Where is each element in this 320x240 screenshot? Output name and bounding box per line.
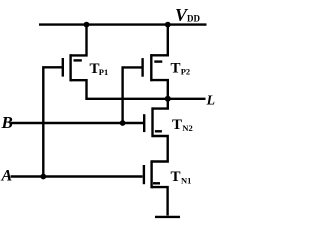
svg-text:N2: N2 bbox=[182, 123, 192, 133]
svg-text:N1: N1 bbox=[181, 175, 191, 185]
svg-text:A: A bbox=[1, 167, 13, 184]
svg-text:L: L bbox=[206, 94, 216, 109]
svg-text:T: T bbox=[172, 117, 182, 133]
svg-text:T: T bbox=[171, 61, 181, 77]
svg-text:DD: DD bbox=[187, 13, 200, 23]
svg-text:P2: P2 bbox=[181, 66, 190, 76]
svg-text:B: B bbox=[1, 113, 13, 132]
svg-text:P1: P1 bbox=[99, 67, 108, 77]
svg-text:T: T bbox=[171, 169, 181, 185]
